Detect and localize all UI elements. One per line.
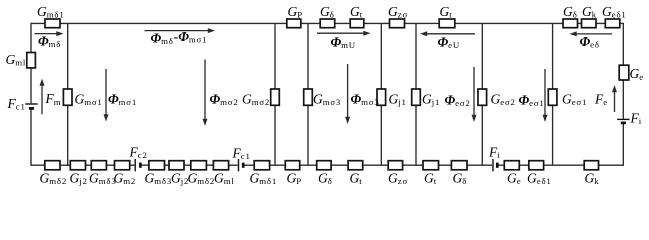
MMF source F_i (bottom wire) xyxy=(492,158,498,172)
label &#934;_e&#963;2 xyxy=(445,93,471,109)
MMF source F_c1 (bottom wire) xyxy=(238,158,244,172)
label G_e&#963;1 xyxy=(562,92,587,108)
label G_j2 (bottom left) xyxy=(70,170,88,186)
flux arrow &#934;_e&#948; (left) xyxy=(570,31,613,36)
label G_m2 (bottom) xyxy=(114,170,137,186)
permeance G_e&#948;1 (top) xyxy=(605,19,620,28)
label G_t (bottom right group) xyxy=(424,170,437,186)
wire: top horizontal bus xyxy=(31,22,623,24)
label G_e&#948;1 (bottom) xyxy=(527,170,552,186)
label G_m&#948;1 (top) xyxy=(37,4,65,20)
label &#934;_e&#963;1 xyxy=(519,93,545,109)
permeance G_m&#948;3 (bottom mid) xyxy=(149,161,165,170)
wire: left outer vertical xyxy=(30,23,32,166)
permeance G_m&#963;2 (branch) xyxy=(271,89,280,105)
wire: right outer vertical xyxy=(622,23,624,166)
label G_ml (left outer wire) xyxy=(6,52,27,68)
MMF arrow F_e (up) xyxy=(612,85,617,112)
flux arrow &#934;_m&#963;1 (down) xyxy=(104,69,109,122)
wire: branch at x=416 (G_j1 b) xyxy=(415,23,417,165)
permeance G_m&#948;2 (bottom) xyxy=(45,161,60,170)
label &#934;_mU xyxy=(331,35,356,51)
permeance G_&#948; (top right group) xyxy=(563,19,578,28)
label G_e&#963;2 xyxy=(491,92,516,108)
label G_t (bottom left group) xyxy=(350,170,363,186)
label G_e (bottom) xyxy=(507,170,521,186)
label G_m&#963;1 xyxy=(75,92,103,108)
wire: branch at x=381.3 (G_j1 a) xyxy=(380,23,382,165)
permeance G_j2 (bottom mid) xyxy=(169,161,184,170)
permeance G_ml (left outer wire) xyxy=(27,53,36,68)
label G_m&#948;2 (bottom) xyxy=(40,170,68,186)
label &#934;_m&#963;3 xyxy=(351,92,380,108)
permeance G_k (bottom) xyxy=(584,161,598,170)
flux arrow &#934;_e&#963;1 (down) xyxy=(543,69,548,122)
label &#934;_eU xyxy=(438,35,461,51)
permeance G_P (bottom) xyxy=(285,161,299,170)
permeance G_j2 (bottom left) xyxy=(70,161,85,170)
label G_&#948; (bottom left group) xyxy=(318,170,333,186)
permeance G_t (bottom right group) xyxy=(423,161,439,170)
label F_e (MMF arrow) xyxy=(594,92,608,108)
permeance G_j1 (branch a) xyxy=(377,89,386,105)
wire: branch at x=552.6 (G_eo1) xyxy=(552,23,554,165)
permeance G_e (right outer wire) xyxy=(619,65,629,80)
permeance G_m&#948;1 (top) xyxy=(45,19,60,28)
permeance G_t (top left group) xyxy=(350,19,364,28)
flux arrow &#934;_m&#963;3 (down) xyxy=(345,64,350,124)
permeance G_&#948; (bottom right group) xyxy=(451,161,467,170)
label G_&#948; (top right group) xyxy=(563,4,578,20)
wire: branch at x=308 (G_mo3) xyxy=(307,23,309,165)
label G_j2 (bottom mid) xyxy=(171,170,189,186)
wire: branch at x=67.7 (G_mo1) xyxy=(67,23,69,165)
label G_m&#948;3 (bottom left) xyxy=(89,170,117,186)
label G_m&#963;2 xyxy=(242,92,270,108)
wire: branch at x=482.3 (G_eo2) xyxy=(481,23,483,165)
label G_j1 (branch a) xyxy=(389,92,407,108)
MMF source F_c2 (bottom wire) xyxy=(134,158,141,172)
permeance G_j1 (branch b) xyxy=(412,89,421,105)
permeance G_P (top) xyxy=(287,19,301,28)
permeance G_e (bottom) xyxy=(504,161,519,170)
label G_t (top left group) xyxy=(350,4,363,20)
MMF source F_c1 (left outer wire) xyxy=(25,103,39,109)
permeance G_z&#963; (top) xyxy=(390,19,405,28)
label G_e&#948;1 (top) xyxy=(602,4,627,20)
label &#934;_m&#963;1 xyxy=(108,92,137,108)
label &#934;_m&#963;2 xyxy=(210,92,239,108)
permeance G_z&#963; (bottom) xyxy=(388,161,402,170)
label G_ml (bottom) xyxy=(214,170,235,186)
permeance G_t (top right of G_z&#963;) xyxy=(439,19,455,28)
permeance G_m&#963;3 (branch) xyxy=(304,89,313,105)
permeance G_m&#963;1 (branch) xyxy=(63,89,72,105)
flux arrow &#934;_eU (left) xyxy=(420,31,475,36)
wire: branch at x=275 (G_mo2) xyxy=(274,23,276,165)
label G_k (bottom) xyxy=(585,170,600,186)
flux arrow &#934;_m&#948; (right) xyxy=(35,31,64,36)
flux arrow &#934;_mU (right) xyxy=(317,31,371,36)
label G_j1 (branch b) xyxy=(422,92,440,108)
label G_P (bottom) xyxy=(287,170,302,186)
label F_c2 (bottom source) xyxy=(129,145,148,161)
label G_m&#948;1 (bottom) xyxy=(250,170,278,186)
MMF source F_i (right outer wire) xyxy=(616,119,630,124)
flux arrow &#934;_m&#948;-&#934;_m&#963;1 (right) xyxy=(145,28,216,33)
permeance G_e&#963;2 (branch) xyxy=(478,89,487,105)
permeance G_k (top) xyxy=(582,19,597,28)
label &#934;_e&#948; xyxy=(580,34,600,50)
label G_e (right outer wire) xyxy=(630,66,644,82)
label F_c1 (left outer wire) xyxy=(7,96,26,112)
permeance G_t (bottom left group) xyxy=(348,161,363,170)
label F_i (bottom source) xyxy=(488,144,501,160)
MMF arrow F_m (up) xyxy=(40,79,45,115)
label G_z&#963; (top) xyxy=(388,4,408,20)
label G_&#948; (top left group) xyxy=(320,4,335,20)
label &#934;_m&#948;-&#934;_m&#963;1 xyxy=(151,29,208,46)
label &#934;_m&#948; xyxy=(38,34,61,50)
label G_z&#963; (bottom) xyxy=(388,170,408,186)
label F_i (right outer wire) xyxy=(630,111,643,127)
label G_t (top right of G_z&#963;) xyxy=(440,4,453,20)
permeance G_m&#948;3 (bottom left) xyxy=(91,161,106,170)
permeance G_m&#948;1 (bottom) xyxy=(254,161,269,170)
permeance G_e&#963;1 (branch) xyxy=(548,89,557,105)
permeance G_&#948; (top left group) xyxy=(320,19,335,28)
label G_P (top) xyxy=(288,4,303,20)
label G_&#948; (bottom right group) xyxy=(453,170,468,186)
label G_m&#948;3 (bottom mid) xyxy=(145,170,173,186)
wire: bottom horizontal bus xyxy=(31,164,623,166)
permeance G_ml (bottom) xyxy=(213,161,228,170)
label G_k (top) xyxy=(582,4,597,20)
label G_m&#963;3 xyxy=(313,92,341,108)
label F_c1 (bottom source) xyxy=(232,145,251,161)
permeance G_m2 (bottom) xyxy=(115,161,130,170)
permeance G_m&#948;2 (bottom mid) xyxy=(191,161,207,170)
flux arrow &#934;_e&#963;2 (down) xyxy=(472,67,477,122)
permeance G_e&#948;1 (bottom) xyxy=(529,161,544,170)
flux arrow &#934;_m&#963;2 (down) xyxy=(203,60,208,127)
label F_m (MMF arrow) xyxy=(45,91,62,107)
label G_m&#948;2 (bottom mid) xyxy=(188,170,216,186)
permeance G_&#948; (bottom left group) xyxy=(317,161,331,170)
